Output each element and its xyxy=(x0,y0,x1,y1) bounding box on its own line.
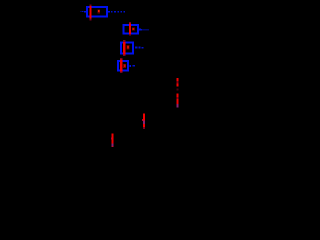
wire W5 (red, upper segment) xyxy=(177,78,179,86)
value label inside U1 xyxy=(97,9,100,13)
wire (red) through U3 xyxy=(123,40,125,56)
component U1 body xyxy=(87,7,107,17)
wire (red) through U4 xyxy=(120,58,122,73)
wire (dotted) right of U2 xyxy=(139,29,148,31)
wire W7 (red) xyxy=(111,133,114,147)
wire W5 (red, lower segment) xyxy=(177,94,179,108)
wire (red) through U1 xyxy=(90,4,92,20)
wire (dotted) right of U3 xyxy=(135,47,143,49)
value label inside U4 xyxy=(123,64,126,68)
wire W6 (red) xyxy=(142,114,145,129)
wire (red) through U2 xyxy=(129,22,131,36)
component U2 body xyxy=(124,25,138,34)
wire (dotted) right of U1 xyxy=(108,11,125,13)
component U3 body xyxy=(121,43,133,54)
value label inside U3 xyxy=(126,45,129,49)
value label inside U2 xyxy=(132,28,135,31)
component U4 body xyxy=(118,61,128,71)
wire (dotted) right of U4 xyxy=(129,65,135,67)
wire (dotted) left of U1 xyxy=(80,11,86,13)
wire W5 gap dot xyxy=(177,88,179,90)
